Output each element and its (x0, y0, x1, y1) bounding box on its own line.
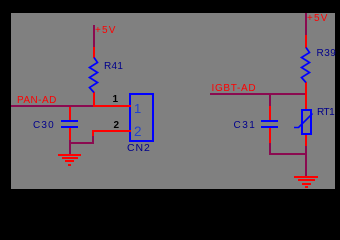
IGBT-AD label (212, 84, 257, 94)
resistor R41 bottom pin (93, 92, 95, 106)
capacitor C31 plates (261, 120, 279, 122)
capacitor C30 plates (61, 120, 79, 122)
+5V right label (307, 14, 329, 24)
ground left (58, 154, 81, 156)
C30 label (33, 121, 55, 131)
capacitor C31 top pin (269, 106, 271, 120)
node IGBT-AD wire (210, 93, 305, 95)
R39 label (317, 49, 337, 59)
connector CN2 body (129, 93, 154, 142)
node PAN-AD wire (11, 105, 93, 107)
+5V left label (95, 26, 117, 36)
C31 label (234, 121, 257, 131)
CN2 pin number 2 (134, 125, 142, 139)
wire pin2 horizontal lower (69, 142, 93, 144)
pin number 1 black (113, 95, 119, 105)
thermistor RT1 label (317, 108, 334, 118)
CN2 label (127, 143, 151, 154)
thermistor RT1 diagonal (294, 114, 313, 128)
resistor R39 bottom pin / RT1 top pin (305, 82, 307, 109)
R41 label (104, 62, 123, 72)
wire cap to ground (69, 140, 71, 154)
capacitor C31 drop maroon (269, 95, 271, 106)
power +5V left line (93, 25, 95, 47)
bottom rail wire (269, 153, 307, 155)
wire C31 to bottom rail (269, 143, 271, 154)
thermistor RT1 body (302, 110, 311, 134)
wire resistor R1 top pin (93, 47, 95, 58)
resistor R41 zigzag (90, 58, 98, 93)
ground right (294, 176, 318, 178)
wire RT1 to ground (305, 146, 307, 176)
resistor R39 zigzag (302, 48, 310, 83)
pin 2 wire to CN2 (92, 130, 131, 132)
wire pin2 vertical (92, 135, 94, 144)
capacitor C31 bottom pin (269, 128, 271, 144)
PAN-AD label (17, 96, 57, 106)
resistor R39 top pin (305, 35, 307, 48)
pin 1 wire to CN2 (93, 105, 131, 107)
CN2 pin number 1 (134, 102, 141, 115)
capacitor C30 bottom pin (69, 128, 71, 141)
capacitor C30 top pin (69, 107, 71, 120)
pin number 2 black (114, 121, 120, 131)
thermistor RT1 bottom pin (305, 135, 307, 146)
power +5V right line (305, 13, 307, 35)
